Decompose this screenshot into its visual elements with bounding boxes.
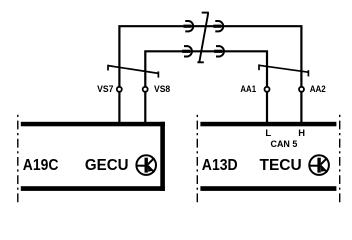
pin AA1 xyxy=(265,87,270,92)
harness slash marker across both top wires xyxy=(197,13,209,63)
svg-text:H: H xyxy=(298,127,305,138)
inline connector pair, top wire right xyxy=(213,21,223,31)
continuation boundary (dash-dot) left of A13D box xyxy=(196,115,198,204)
ECU box A13D TECU (right, partial both sides) xyxy=(200,122,336,191)
transistor icon in GECU xyxy=(136,155,156,175)
svg-text:CAN 5: CAN 5 xyxy=(271,138,298,149)
svg-text:A19C: A19C xyxy=(23,157,59,174)
svg-text:TECU: TECU xyxy=(260,157,302,174)
inline connector pair, top wire left xyxy=(183,21,193,31)
pin AA2 xyxy=(299,87,304,92)
svg-text:VS8: VS8 xyxy=(154,83,170,94)
inline connector pair, lower wire left xyxy=(182,46,192,56)
ECU box A19C GECU (left, partial) xyxy=(21,122,165,191)
svg-text:VS7: VS7 xyxy=(97,83,113,94)
pin VS8 xyxy=(143,87,148,92)
twisted-pair marker over VS7/VS8 wires xyxy=(108,65,158,78)
svg-text:AA2: AA2 xyxy=(310,83,326,94)
wire CAN-L top run: VS7 to AA2 xyxy=(119,26,301,122)
pin VS7 xyxy=(117,87,122,92)
svg-text:GECU: GECU xyxy=(85,157,129,174)
svg-text:AA1: AA1 xyxy=(240,83,256,94)
transistor icon in TECU xyxy=(309,155,329,175)
svg-text:L: L xyxy=(265,127,271,138)
continuation boundary (dash-dot) left of A19C box xyxy=(17,115,19,204)
twisted-pair marker over AA1/AA2 wires xyxy=(259,64,308,76)
continuation boundary (dash-dot) right of A13D box xyxy=(339,115,341,204)
svg-text:A13D: A13D xyxy=(202,157,238,174)
inline connector pair, lower wire right xyxy=(214,46,224,56)
wire CAN-H lower run: VS8 to AA1 xyxy=(145,51,267,122)
